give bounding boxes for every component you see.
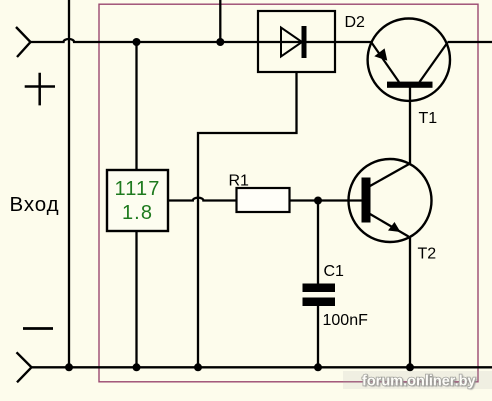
transistor T2 collector line [370, 164, 410, 187]
minus sign [23, 327, 53, 330]
capacitor C1 top plate [303, 284, 336, 293]
svg-text:T1: T1 [419, 110, 438, 127]
svg-text:100nF: 100nF [323, 312, 369, 329]
wire R1 to T2 base [290, 199, 362, 201]
wire top rail left with hop over left vertical rail [30, 39, 372, 42]
svg-text:forum.onliner.by: forum.onliner.by [362, 374, 476, 390]
transistor T2 emitter arrow [388, 222, 401, 232]
plus sign [25, 73, 55, 106]
svg-text:D2: D2 [345, 14, 366, 31]
transistor T2 base bar [362, 178, 371, 223]
wire C1 bottom plate to ground rail [317, 306, 319, 367]
selection frame [99, 4, 478, 382]
wire from 1117 bottom to ground rail [135, 231, 137, 367]
diode D2 cathode bar [302, 26, 307, 58]
wire T2 emitter down to ground rail [409, 236, 411, 367]
junction dot top rail / stub [216, 38, 224, 46]
svg-text:Вход: Вход [10, 193, 60, 216]
wire from D2 bottom down-left to ground rail [198, 72, 297, 367]
svg-text:T2: T2 [418, 246, 437, 263]
regulator U1 1117 box [107, 170, 168, 231]
transistor T1 (PNP) circle [368, 19, 450, 101]
wire node to C1 top plate [317, 201, 319, 284]
junction node R1 / C1 / T2 base [314, 197, 322, 205]
svg-text:R1: R1 [229, 173, 250, 190]
watermark forum.onliner.by [362, 374, 477, 391]
input terminal top [16, 27, 31, 57]
svg-text:C1: C1 [324, 263, 345, 280]
transistor T1 emitter line [372, 43, 400, 83]
junction dot top rail / 1117 input [133, 38, 141, 46]
transistor T1 collector line [420, 43, 448, 83]
wire stub top at x=220 [219, 0, 221, 42]
resistor R1 [237, 188, 290, 212]
transistor T2 emitter line [370, 214, 409, 237]
wire left vertical rail [68, 0, 70, 367]
wire from top rail down to 1117 input [135, 42, 137, 170]
junction dot ground / left rail [65, 363, 73, 371]
transistor T1 emitter arrow [374, 48, 387, 60]
svg-text:1117: 1117 [115, 178, 161, 200]
capacitor C1 bottom plate [303, 298, 336, 307]
junction dot ground / 1117 [133, 363, 141, 371]
watermark band [343, 371, 492, 389]
junction dot ground / D2 return [194, 363, 202, 371]
diode D2 triangle [281, 28, 302, 57]
diode D2 box [258, 11, 335, 72]
wire 1117 output to R1 with hop over vertical wire [168, 198, 237, 201]
input terminal bottom [17, 352, 32, 382]
wire top rail right of T1 [448, 41, 492, 43]
transistor T2 (NPN) circle [349, 159, 432, 242]
wire bottom ground rail [30, 366, 492, 368]
wire T1 base down to T2 collector [409, 87, 411, 164]
svg-text:1.8: 1.8 [122, 202, 153, 224]
junction dot ground / C1 [314, 363, 322, 371]
junction dot ground / T2 emitter [406, 363, 414, 371]
transistor T1 base bar [387, 82, 433, 88]
